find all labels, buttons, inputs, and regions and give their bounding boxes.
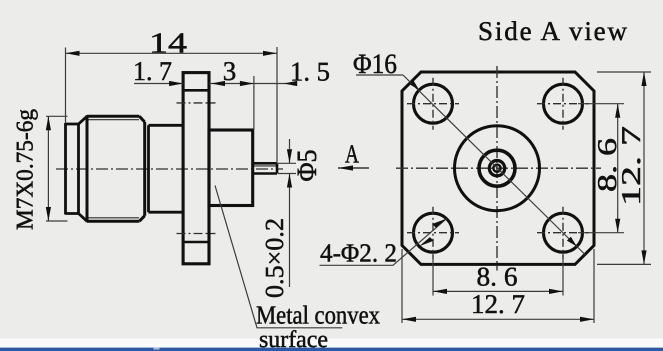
middle cylinder — [149, 125, 184, 212]
flange hole centerlines (side view) — [177, 103, 216, 234]
dimension M7X0.75-6g — [46, 116, 68, 221]
center pin circle — [493, 165, 500, 172]
svg-text:surface: surface — [259, 327, 328, 351]
svg-text:8. 6: 8. 6 — [477, 262, 518, 292]
insulator circle — [479, 150, 515, 186]
svg-text:4-Φ2. 2: 4-Φ2. 2 — [320, 239, 397, 268]
coupling nut — [87, 115, 145, 222]
dimension 12.7 bottom — [402, 249, 594, 323]
flange square outline — [402, 72, 594, 264]
rear body (crimp end) — [66, 123, 79, 215]
hole BR centerlines — [537, 207, 589, 259]
svg-text:Metal convex: Metal convex — [256, 301, 380, 330]
svg-text:3: 3 — [223, 56, 237, 86]
bottom white band — [0, 339, 663, 348]
hole TR centerlines — [537, 78, 589, 130]
bottom blue table line — [0, 348, 663, 351]
dimension 12.7 right — [597, 72, 651, 264]
mounting hole bottom-left — [414, 213, 453, 252]
svg-text:14: 14 — [149, 28, 188, 60]
pin inner line — [254, 165, 276, 167]
flange plate side view — [183, 73, 209, 264]
dimension 8.6 bottom — [433, 254, 563, 296]
phi16 leader arrows — [409, 80, 577, 246]
rear-to-nut chamfer edges — [79, 116, 88, 221]
hole TL centerlines — [407, 78, 459, 130]
mounting hole bottom-right — [544, 213, 583, 252]
leader: metal convex surface — [215, 186, 342, 328]
centerline left view — [56, 168, 283, 170]
main centerlines right view — [396, 66, 601, 271]
svg-text:A: A — [345, 140, 359, 169]
hole BL centerlines — [407, 207, 459, 259]
svg-text:0.5×0.2: 0.5×0.2 — [260, 218, 289, 298]
dimension phi5 (pin) — [278, 139, 296, 287]
dimension 1.7 / 3 / 1.5 — [134, 76, 291, 130]
svg-text:Side A view: Side A view — [478, 16, 628, 46]
mounting hole top-left — [414, 84, 453, 123]
body circle outer — [455, 126, 540, 211]
svg-text:12. 7: 12. 7 — [616, 126, 646, 206]
blue line light notch — [154, 348, 160, 350]
solder pin tab — [253, 163, 277, 173]
svg-text:M7X0.75-6g: M7X0.75-6g — [13, 109, 39, 230]
nut thread relief inner lines — [89, 120, 140, 218]
phi16 leader diagonal — [403, 75, 585, 255]
dimension 8.6 right — [578, 104, 624, 233]
flange corner chamfer edges (side view) — [183, 90, 209, 242]
svg-text:Φ5: Φ5 — [292, 150, 323, 182]
contact circle — [489, 161, 504, 176]
svg-text:12. 7: 12. 7 — [471, 289, 525, 319]
mounting hole top-right — [544, 84, 583, 123]
right body cylinder — [209, 130, 253, 206]
dimension 14 — [66, 47, 278, 163]
svg-text:1. 5: 1. 5 — [290, 57, 330, 87]
svg-text:1. 7: 1. 7 — [133, 56, 172, 86]
